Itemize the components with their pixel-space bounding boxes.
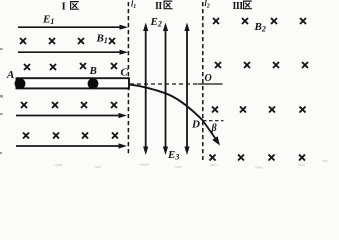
svg-text:B: B <box>89 65 97 77</box>
B1 cross row 1 <box>20 38 115 44</box>
axis segment at O <box>198 83 223 85</box>
svg-text:A: A <box>6 69 14 81</box>
svg-text:β: β <box>211 123 218 134</box>
svg-text:C: C <box>121 67 129 79</box>
B2 cross row 2 <box>215 62 308 68</box>
dashed line C to O <box>130 83 199 85</box>
svg-text:O: O <box>205 73 212 84</box>
trajectory curve C to D <box>129 84 203 120</box>
field arrow E1 fourth (y=146) <box>16 145 120 147</box>
B2 cross row 1 <box>213 18 306 24</box>
B1 cross row 2 <box>24 63 117 70</box>
svg-text:II: II <box>155 1 162 12</box>
B2 cross row 4 <box>210 155 306 161</box>
label I region (I 区) <box>62 1 80 13</box>
ball at A <box>15 78 26 89</box>
field arrow vertical 1 (up E2 / down E3) <box>143 23 148 156</box>
cross row 4 <box>23 133 118 139</box>
ball at B <box>88 78 99 89</box>
rod AC (rails/bar) <box>17 78 130 88</box>
field arrow vertical 2 <box>163 23 168 156</box>
svg-text:III: III <box>233 1 244 12</box>
field arrow E1 top (y=27) <box>18 26 121 28</box>
scan speckle bottom <box>55 160 328 169</box>
velocity arrow at D <box>203 121 217 141</box>
boundary line l1 (dashed vertical) <box>127 2 129 156</box>
cross row 3 (below rod) <box>21 102 117 108</box>
field arrow E1 second (y=52) <box>18 51 121 53</box>
label III region (III 区) <box>233 1 253 12</box>
boundary line l2 (dashed vertical) <box>202 2 204 160</box>
dashed horizontal at D <box>203 120 224 122</box>
label II region (II 区) <box>155 1 173 12</box>
field arrow E1 third (y=115.5) <box>16 115 120 117</box>
B2 cross row 3 <box>212 107 306 113</box>
svg-text:D: D <box>191 119 200 131</box>
field arrow vertical 3 <box>184 23 189 156</box>
svg-text:I: I <box>62 1 66 13</box>
scan specks left edge <box>0 48 3 154</box>
